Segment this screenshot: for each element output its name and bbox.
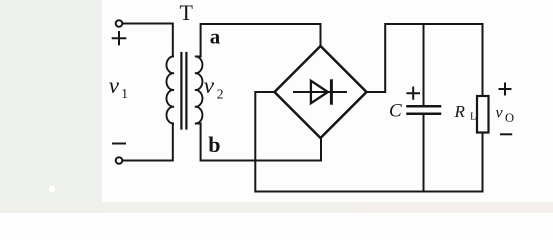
terminal circle bottom-left <box>116 157 123 164</box>
transformer T secondary coil <box>195 56 203 123</box>
minus sign (v1 input) <box>113 143 125 145</box>
svg-text:O: O <box>505 111 514 125</box>
bridge rectifier diamond <box>275 46 367 138</box>
svg-text:b: b <box>208 132 220 157</box>
plus sign (vo output) <box>500 84 511 95</box>
minus sign (vo output) <box>501 133 511 135</box>
diode triangle <box>311 81 328 103</box>
resistor RL body <box>477 96 489 133</box>
wire: primary bottom to bottom-left terminal <box>122 124 172 161</box>
white speck on left strip <box>49 186 55 192</box>
svg-text:2: 2 <box>217 87 224 102</box>
svg-text:v: v <box>204 73 215 98</box>
diode cathode bar <box>330 81 333 103</box>
svg-text:C: C <box>389 101 402 122</box>
svg-text:T: T <box>180 0 194 25</box>
bottom strip background <box>96 202 553 213</box>
plus sign (v1 input) <box>113 32 126 44</box>
terminal circle top-left <box>116 20 123 27</box>
svg-text:1: 1 <box>121 86 128 101</box>
svg-text:L: L <box>470 112 476 123</box>
wire: top-left terminal to primary top <box>122 24 172 57</box>
svg-text:v: v <box>109 73 120 98</box>
svg-text:a: a <box>210 25 221 49</box>
capacitor C plates <box>408 106 441 113</box>
capacitor C top lead <box>423 24 425 105</box>
capacitor C bottom lead <box>423 115 425 192</box>
svg-text:v: v <box>496 104 504 121</box>
diode lead inside bridge <box>294 91 346 93</box>
wire: node a from secondary top to bridge top vertex <box>201 24 321 57</box>
wire: node b from secondary bottom to bridge bottom vertex <box>201 124 321 161</box>
plus sign (capacitor polarity) <box>407 88 419 99</box>
left grey strip background <box>0 0 102 213</box>
transformer T primary coil <box>166 56 174 123</box>
wire: bridge - output (left vertex) down to bottom rail <box>255 92 482 192</box>
svg-text:R: R <box>454 102 466 121</box>
resistor RL top lead <box>482 24 484 96</box>
resistor RL bottom lead <box>482 133 484 192</box>
wire: bridge + output (right vertex) up to top rail <box>367 24 483 92</box>
transformer core bars <box>181 53 186 129</box>
